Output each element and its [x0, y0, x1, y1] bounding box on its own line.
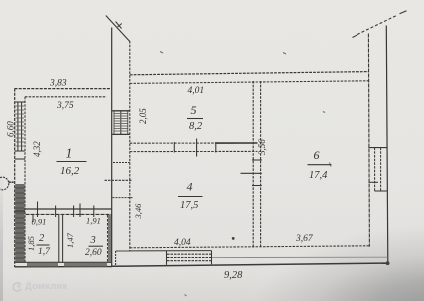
room 4 label 17,5	[178, 196, 203, 198]
wall: corridor right	[129, 41, 131, 251]
tick: left wall y211	[15, 210, 25, 212]
room 5 label 8,2	[187, 118, 203, 120]
dot mark in room 4 bottom	[232, 237, 235, 240]
line: bottom faint outer	[212, 256, 388, 258]
corridor tick y162	[113, 162, 130, 164]
tick: left wall y159	[15, 158, 25, 160]
wall: right inner	[368, 34, 369, 247]
corridor tick y180 with left extension	[105, 179, 132, 181]
floor line: right unit bottom inner	[130, 246, 369, 248]
wall: left unit bottom	[15, 262, 113, 267]
wall: corridor left	[111, 28, 113, 267]
corridor tick y197.6	[113, 197, 134, 199]
wall: room1/rooms23 partition	[26, 209, 112, 214]
wall: right unit top outer	[130, 72, 369, 75]
porch with steps	[116, 251, 212, 265]
stub below partition x33	[32, 215, 34, 223]
speck marks	[160, 52, 331, 297]
room 2 label 1,7	[37, 244, 50, 246]
door jambs on partition	[38, 202, 94, 218]
break line top-left	[106, 16, 130, 42]
wall: right outer	[386, 26, 388, 264]
wall: left unit left inner	[24, 97, 26, 262]
shadow bottom-right corner	[204, 191, 424, 301]
room 1 label 16,2	[57, 161, 87, 163]
paper grain overlay	[0, 0, 1, 1]
room 3 label 2,60	[89, 245, 104, 247]
wall hatch: left wall lower	[15, 184, 24, 262]
line: bottom main long (9.28)	[112, 261, 390, 266]
window: right wall	[368, 148, 387, 191]
site wall stub with circle at left edge	[0, 177, 15, 190]
wall: room5/room4 partition	[130, 143, 258, 152]
line: bottom wall second	[130, 250, 212, 252]
ticks on 5/4 partition	[174, 139, 216, 157]
wall: left unit right inner	[108, 215, 113, 262]
door ticks on 4/6 partition	[241, 160, 262, 186]
wall: right unit top inner	[130, 81, 369, 84]
wall: room4/room6 partition	[253, 81, 260, 247]
wall: left unit left outer	[14, 89, 16, 267]
window: left wall	[15, 102, 25, 151]
watermark Домклик logo + text	[12, 281, 68, 292]
room 6 label 17,4	[308, 164, 332, 166]
break line top-right	[353, 11, 407, 38]
wall: rooms 2/3 partition	[59, 215, 63, 263]
wall: left unit top outer	[15, 88, 111, 90]
stairs in corridor	[112, 111, 130, 135]
wall: left unit top inner	[25, 96, 107, 98]
